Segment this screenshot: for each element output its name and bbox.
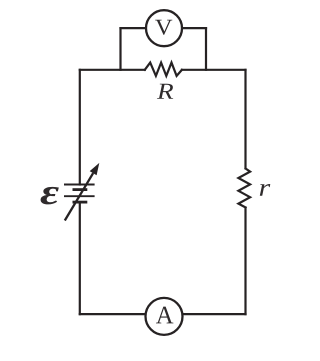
label epsilon xyxy=(41,187,59,205)
wire: right side upper (to r) xyxy=(244,70,246,169)
battery plate: long (top cell +) xyxy=(64,184,95,186)
battery EMF source (2 cells) xyxy=(64,185,95,203)
label R xyxy=(157,84,173,99)
arrow (variable EMF) head xyxy=(90,163,100,175)
resistor R xyxy=(145,63,182,76)
battery plate: short (top cell -) xyxy=(73,188,88,191)
voltmeter V circle xyxy=(146,10,182,46)
wire: voltmeter branch top-right horizontal xyxy=(182,27,206,29)
wire: left side upper (to battery) xyxy=(79,70,81,185)
wire: bottom side, right of ammeter xyxy=(182,313,246,315)
wire: voltmeter branch top-left horizontal xyxy=(121,27,147,29)
battery plate: short (bottom cell -) xyxy=(73,201,88,204)
arrow (variable EMF) shaft xyxy=(65,173,93,220)
resistor r xyxy=(238,169,250,208)
wire: top side, left of R xyxy=(80,69,145,71)
wire: bottom side, left of ammeter xyxy=(80,313,147,315)
ammeter label A xyxy=(156,307,173,324)
wire: right side lower (from r) xyxy=(244,208,246,315)
wire: voltmeter branch left vertical xyxy=(119,28,121,70)
ammeter A circle xyxy=(146,298,183,335)
label r xyxy=(260,184,271,196)
wire: left side lower (from battery) xyxy=(79,202,81,314)
wire: voltmeter branch right vertical xyxy=(205,28,207,70)
battery plate: long (bottom cell +) xyxy=(64,195,95,197)
wire: top side, right of R xyxy=(182,69,246,71)
voltmeter label V xyxy=(155,20,172,35)
